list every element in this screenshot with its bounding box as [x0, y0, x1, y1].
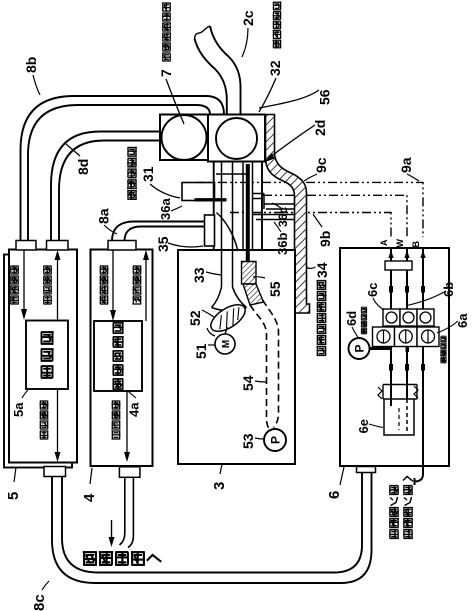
cable 8a	[112, 222, 205, 242]
phantom tube line 9a (B)	[196, 182, 423, 237]
text control signal bottom	[40, 430, 48, 432]
svg-text:8c: 8c	[31, 594, 48, 611]
display arrow	[111, 520, 113, 542]
svg-text:36b: 36b	[275, 233, 290, 255]
svg-text:5: 5	[5, 492, 22, 500]
svg-text:9c: 9c	[313, 157, 329, 173]
text instruction signal	[11, 295, 19, 297]
insertion tube 2c	[195, 39, 227, 115]
connector stub 8c under box6	[357, 467, 376, 473]
top block on tubes	[385, 261, 412, 270]
processor box 4	[91, 250, 153, 467]
text suction tank	[390, 529, 399, 531]
air pump 6d	[349, 338, 370, 359]
mouthpiece 55 hatched	[242, 262, 257, 285]
svg-text:31: 31	[140, 166, 156, 182]
svg-text:33: 33	[191, 267, 207, 283]
connector stub 8b on box5	[16, 241, 36, 251]
funnel 33 flare	[212, 287, 247, 311]
svg-text:34: 34	[314, 262, 330, 278]
svg-text:4a: 4a	[127, 402, 142, 417]
cable 8d	[51, 132, 160, 242]
control unit box 5 (shadow)	[4, 255, 72, 468]
text air-release near 6d	[361, 327, 366, 329]
svg-text:5a: 5a	[11, 402, 26, 417]
svg-text:P: P	[353, 344, 367, 352]
connector block 35	[205, 215, 215, 246]
signal lines box4	[112, 250, 114, 317]
svg-text:B: B	[411, 241, 421, 248]
text image signal	[133, 295, 141, 297]
svg-text:2c: 2c	[240, 10, 256, 26]
svg-text:8a: 8a	[96, 208, 112, 224]
svg-text:53: 53	[240, 433, 256, 449]
text to display device	[83, 551, 97, 553]
horn curve into box3	[217, 213, 238, 250]
connector stub 8d on box5	[47, 241, 69, 251]
svg-text:36a: 36a	[158, 198, 173, 220]
svg-text:9a: 9a	[398, 157, 414, 173]
svg-text:M: M	[221, 340, 232, 348]
svg-text:W: W	[395, 239, 405, 248]
svg-text:35: 35	[155, 236, 171, 252]
tube B in box6 exits to suction pump	[415, 248, 424, 485]
box 3 (suction unit)	[178, 250, 295, 464]
text air-release near tube B	[441, 356, 446, 358]
svg-text:8b: 8b	[23, 57, 39, 73]
svg-text:3: 3	[211, 482, 228, 490]
svg-text:32: 32	[267, 60, 283, 76]
svg-text:54: 54	[240, 375, 256, 391]
phantom tube line 9b (A)	[230, 213, 391, 238]
connector fitting 36a	[182, 183, 215, 201]
connector stub 4a under box4	[119, 467, 139, 478]
svg-text:56: 56	[317, 89, 333, 105]
box 6 (air/water feed unit)	[340, 248, 449, 466]
svg-text:55: 55	[267, 281, 283, 297]
valve row 6c	[383, 309, 400, 326]
text controller (in box5)	[41, 365, 53, 367]
svg-text:9b: 9b	[317, 231, 333, 247]
svg-text:6c: 6c	[365, 283, 380, 297]
svg-text:6d: 6d	[344, 311, 359, 326]
arrowheads at tube tops	[388, 250, 393, 258]
tick marks lower	[389, 364, 393, 371]
valve row 6a	[373, 327, 395, 347]
tick marks upper	[389, 286, 393, 293]
text video signal	[112, 430, 121, 432]
signal lines box5	[23, 250, 25, 316]
tube A in box6	[390, 248, 392, 406]
connector fitting 36c	[253, 194, 295, 210]
water tank 6e	[383, 385, 417, 400]
second connection part 32 box with pulley	[208, 115, 265, 162]
video cable 4a to display	[120, 478, 125, 545]
svg-text:51: 51	[193, 343, 209, 359]
fan 52	[207, 328, 215, 336]
svg-text:6a: 6a	[455, 313, 470, 328]
svg-text:8d: 8d	[75, 159, 91, 175]
svg-text:7: 7	[158, 69, 174, 77]
inner box signal processor	[94, 321, 142, 391]
conduit flank lines	[242, 162, 244, 250]
cable 8c	[52, 472, 372, 583]
housing internal line	[216, 173, 246, 175]
text to suction pump	[404, 529, 413, 531]
first connection part 31 box with pulley	[160, 115, 208, 161]
cable 8b (bending wire conduit)	[21, 96, 225, 241]
connector stub 8a on box4	[108, 241, 136, 251]
text drive signal	[100, 295, 108, 297]
channel lines in housing	[221, 161, 223, 287]
suction tube 54 (dashed)	[250, 305, 270, 429]
svg-text:6: 6	[326, 491, 343, 499]
text signal processor (in box4)	[113, 378, 124, 380]
svg-text:A: A	[379, 239, 389, 246]
svg-text:36c: 36c	[276, 207, 290, 227]
pump 53	[264, 429, 286, 451]
connector fitting 36b	[253, 215, 295, 220]
svg-text:52: 52	[187, 310, 203, 326]
svg-text:4: 4	[81, 493, 98, 502]
svg-text:6e: 6e	[356, 419, 371, 433]
control unit box 5	[9, 250, 77, 463]
inner box controller	[26, 321, 68, 390]
connector stub 8c under box5	[44, 467, 66, 477]
svg-text:P: P	[269, 436, 283, 444]
wall opening-closing member 34/56 hatched	[266, 115, 310, 314]
tube W in box6	[406, 248, 408, 399]
text control signal top	[44, 295, 52, 297]
conduit (black)	[246, 164, 250, 262]
svg-text:2d: 2d	[312, 120, 328, 136]
motor 51	[225, 328, 228, 335]
scope housing below connector	[213, 161, 215, 250]
phantom tube line 9c (W)	[263, 195, 407, 237]
svg-text:6b: 6b	[441, 282, 456, 297]
